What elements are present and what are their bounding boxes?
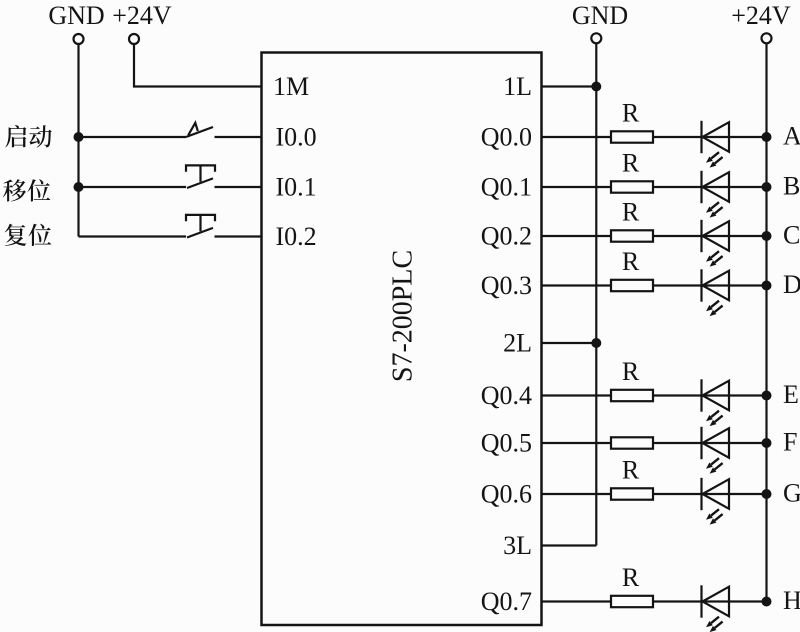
wire 2L to GND rail xyxy=(542,342,597,344)
svg-text:C: C xyxy=(783,221,800,250)
wire resistor to LED E xyxy=(653,394,702,396)
LED A xyxy=(702,121,730,168)
wire GND right rail xyxy=(595,43,597,546)
wire +24V to 1M xyxy=(134,44,262,87)
node junction D/+24V xyxy=(762,281,772,291)
wire I0.1 right segment xyxy=(215,186,262,188)
wire LED F to +24V rail xyxy=(703,442,767,444)
wire resistor to LED C xyxy=(653,235,702,237)
wire Q0.5 to resistor xyxy=(542,442,612,444)
wire 3L to GND rail xyxy=(542,544,597,546)
node junction H/+24V xyxy=(762,597,772,607)
wire GND left rail xyxy=(77,44,79,237)
node junction F/+24V xyxy=(762,438,772,448)
wire I0.2 right segment xyxy=(215,235,262,237)
svg-text:GND: GND xyxy=(48,1,104,30)
wire LED G to +24V rail xyxy=(703,493,767,495)
svg-text:R: R xyxy=(622,456,640,485)
svg-text:R: R xyxy=(622,149,640,178)
svg-text:B: B xyxy=(783,172,800,201)
LED C xyxy=(702,220,730,267)
svg-text:E: E xyxy=(783,380,799,409)
resistor R (Q0.2) xyxy=(611,230,653,241)
label 启动 (start) xyxy=(5,125,52,148)
node junction E/+24V xyxy=(762,391,772,401)
svg-text:R: R xyxy=(622,247,640,276)
LED B xyxy=(702,171,730,218)
node junction G/+24V xyxy=(762,489,772,499)
LED G xyxy=(702,478,730,525)
node junction 2L/GND xyxy=(591,338,601,348)
wire Q0.6 to resistor xyxy=(542,493,612,495)
wire Q0.1 to resistor xyxy=(542,186,612,188)
svg-text:Q0.2: Q0.2 xyxy=(481,222,532,251)
resistor R (Q0.3) xyxy=(611,280,653,291)
wire Q0.2 to resistor xyxy=(542,235,612,237)
svg-text:G: G xyxy=(783,479,800,508)
svg-text:3L: 3L xyxy=(503,531,532,560)
svg-text:+24V: +24V xyxy=(112,1,172,30)
resistor R (Q0.0) xyxy=(611,131,653,142)
wire resistor to LED F xyxy=(653,442,702,444)
wire Q0.7 to resistor xyxy=(542,600,612,602)
wire Q0.0 to resistor xyxy=(542,136,612,138)
svg-text:+24V: +24V xyxy=(731,1,791,30)
wire resistor to LED D xyxy=(653,284,702,286)
svg-text:Q0.7: Q0.7 xyxy=(481,587,532,616)
svg-text:F: F xyxy=(783,428,797,457)
node junction C/+24V xyxy=(762,231,772,241)
resistor R (Q0.7) xyxy=(611,596,653,607)
svg-text:R: R xyxy=(622,357,640,386)
svg-text:Q0.4: Q0.4 xyxy=(481,381,532,410)
svg-text:Q0.3: Q0.3 xyxy=(481,271,532,300)
svg-text:R: R xyxy=(622,198,640,227)
wire LED B to +24V rail xyxy=(703,186,767,188)
LED F xyxy=(702,427,730,474)
terminal +24V (left) xyxy=(112,1,172,44)
LED H xyxy=(702,585,730,632)
switch SB1 start contact (I0.0) xyxy=(186,123,213,137)
svg-text:1L: 1L xyxy=(503,72,532,101)
svg-text:Q0.0: Q0.0 xyxy=(481,123,532,152)
pushbutton switch SB2 (I0.1) xyxy=(186,165,215,188)
pushbutton switch SB3 (I0.2) xyxy=(186,215,215,238)
wire 1L to GND rail xyxy=(542,85,597,87)
wire +24V right rail xyxy=(765,43,767,602)
svg-text:Q0.1: Q0.1 xyxy=(481,173,532,202)
wire I0.1 left segment xyxy=(79,186,187,188)
LED D xyxy=(702,269,730,316)
svg-text:A: A xyxy=(783,122,800,151)
svg-text:Q0.6: Q0.6 xyxy=(481,480,532,509)
svg-text:S7-200PLC: S7-200PLC xyxy=(388,250,419,382)
wire I0.2 left segment xyxy=(79,235,187,237)
terminal +24V (right) xyxy=(731,1,791,43)
wire I0.0 left segment xyxy=(79,136,187,138)
svg-text:R: R xyxy=(622,99,640,128)
wire LED H to +24V rail xyxy=(703,600,767,602)
svg-text:2L: 2L xyxy=(503,329,532,358)
node junction A/+24V xyxy=(762,132,772,142)
svg-text:H: H xyxy=(783,586,800,615)
svg-text:D: D xyxy=(783,270,800,299)
resistor R (Q0.6) xyxy=(611,488,653,499)
node junction 1L/GND xyxy=(591,82,601,92)
terminal GND (left) xyxy=(48,1,104,44)
wire Q0.4 to resistor xyxy=(542,394,612,396)
wire resistor to LED A xyxy=(653,136,702,138)
terminal GND (right) xyxy=(572,1,628,43)
svg-text:I0.1: I0.1 xyxy=(276,173,317,202)
svg-text:I0.2: I0.2 xyxy=(276,222,317,251)
resistor R (Q0.4) xyxy=(611,390,653,401)
wire resistor to LED H xyxy=(653,600,702,602)
label 复位 (reset) xyxy=(5,224,52,246)
wire LED A to +24V rail xyxy=(703,136,767,138)
svg-text:R: R xyxy=(622,563,640,592)
PLC U1 S7-200PLC xyxy=(262,53,542,626)
wire Q0.3 to resistor xyxy=(542,284,612,286)
wire I0.0 right segment xyxy=(215,136,262,138)
svg-text:GND: GND xyxy=(572,1,628,30)
resistor R (Q0.1) xyxy=(611,181,653,192)
node junction GND/I0.1 xyxy=(74,182,84,192)
svg-text:I0.0: I0.0 xyxy=(276,123,317,152)
wire resistor to LED G xyxy=(653,493,702,495)
resistor R (Q0.5) xyxy=(611,437,653,448)
wire LED E to +24V rail xyxy=(703,394,767,396)
wire resistor to LED B xyxy=(653,186,702,188)
wire LED C to +24V rail xyxy=(703,235,767,237)
wire LED D to +24V rail xyxy=(703,284,767,286)
node junction GND/I0.0 xyxy=(74,132,84,142)
label 移位 (shift) xyxy=(3,179,50,201)
LED E xyxy=(702,379,730,426)
svg-text:1M: 1M xyxy=(273,72,309,101)
node junction B/+24V xyxy=(762,182,772,192)
svg-text:Q0.5: Q0.5 xyxy=(481,429,532,458)
